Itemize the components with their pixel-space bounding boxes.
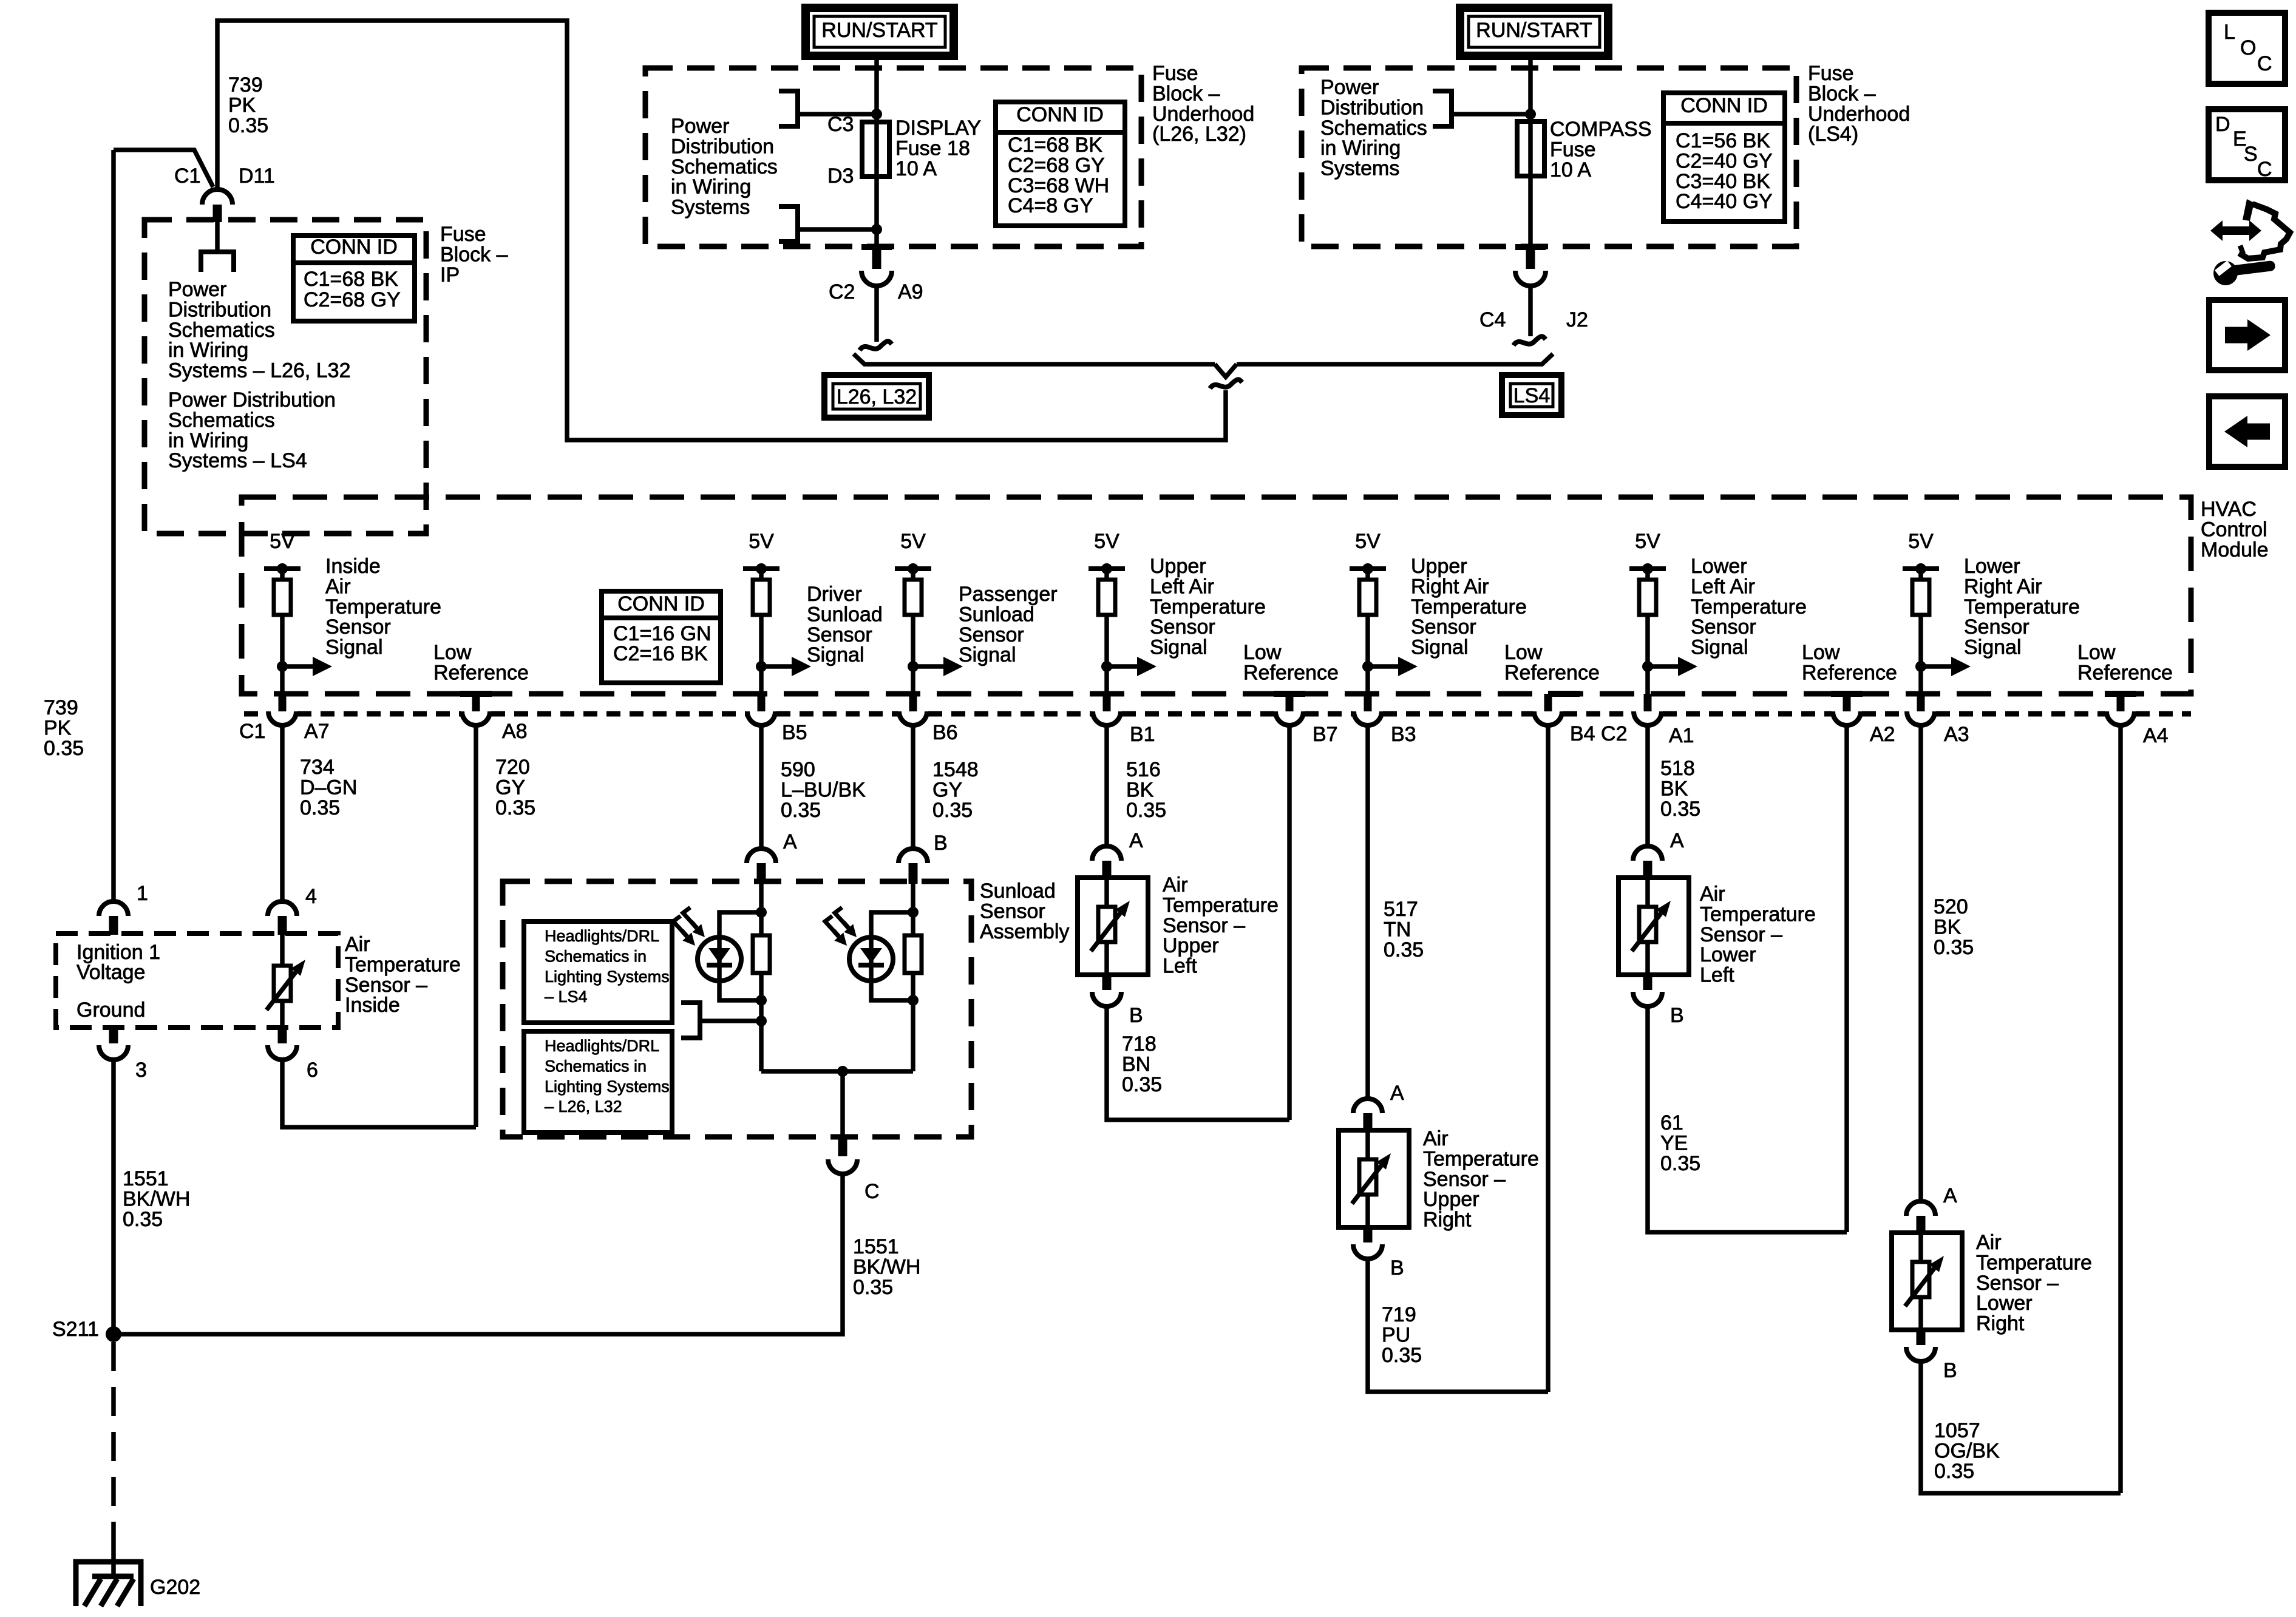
svg-text:B: B: [1943, 1359, 1957, 1382]
svg-text:Upper: Upper: [1411, 555, 1467, 578]
svg-text:Left: Left: [1163, 955, 1197, 978]
svg-text:518: 518: [1660, 757, 1695, 780]
photodiode LED passenger sunload: [849, 937, 893, 981]
HVAC pin B4 C2 low reference: [1548, 691, 1580, 697]
svg-text:A: A: [1129, 829, 1143, 852]
wire low reference loop lower right: [1921, 1363, 2121, 1493]
wire LED branch bottom driver sunload: [719, 981, 761, 1000]
svg-text:A7: A7: [304, 720, 330, 743]
wire break squiggle below A9: [860, 341, 892, 350]
HVAC pin B6 signal: [909, 694, 917, 711]
svg-text:– LS4: – LS4: [545, 988, 588, 1006]
svg-text:Schematics: Schematics: [168, 408, 275, 432]
svg-text:B: B: [1390, 1256, 1404, 1280]
connector B sunload arc: [898, 849, 928, 863]
svg-text:1: 1: [137, 882, 148, 905]
svg-text:Sensor: Sensor: [325, 615, 391, 639]
junction dot D3: [871, 224, 882, 235]
svg-text:Right: Right: [1423, 1209, 1472, 1232]
svg-text:C2: C2: [829, 280, 855, 303]
svg-text:Systems: Systems: [671, 196, 750, 219]
wire main branch passenger sunload: [911, 884, 915, 1071]
svg-text:Underhood: Underhood: [1152, 103, 1254, 126]
svg-text:Sunload: Sunload: [807, 603, 883, 626]
svg-text:0.35: 0.35: [1934, 1460, 1974, 1483]
air temperature sensor box lower right: [1892, 1233, 1962, 1330]
svg-text:Sensor –: Sensor –: [1163, 914, 1245, 937]
svg-text:Power: Power: [1320, 76, 1379, 99]
svg-text:0.35: 0.35: [1382, 1344, 1422, 1367]
svg-text:Power: Power: [168, 278, 226, 301]
CONN ID box IP: [293, 236, 415, 321]
photodiode LED driver sunload: [698, 937, 741, 981]
svg-text:C2=16 BK: C2=16 BK: [613, 642, 708, 665]
wire 1551 BK/WH from ignition ground: [111, 1059, 116, 1334]
svg-text:6: 6: [307, 1059, 318, 1082]
svg-text:GY: GY: [495, 776, 525, 799]
svg-text:A9: A9: [898, 280, 923, 303]
svg-text:0.35: 0.35: [300, 796, 340, 819]
svg-text:B3: B3: [1391, 723, 1416, 746]
svg-text:D11: D11: [239, 164, 275, 188]
svg-text:Air: Air: [1163, 873, 1188, 897]
svg-text:0.35: 0.35: [1660, 1152, 1700, 1175]
svg-text:CONN ID: CONN ID: [617, 592, 705, 615]
svg-text:Reference: Reference: [1802, 661, 1897, 684]
svg-text:Air: Air: [325, 575, 351, 598]
svg-text:DISPLAY: DISPLAY: [895, 117, 981, 140]
connector B upper right: [1364, 1227, 1373, 1242]
svg-text:Left Air: Left Air: [1150, 575, 1214, 598]
svg-text:Signal: Signal: [1691, 636, 1748, 659]
svg-text:BK/WH: BK/WH: [123, 1187, 190, 1210]
svg-text:Inside: Inside: [345, 994, 400, 1017]
svg-text:BK/WH: BK/WH: [853, 1255, 920, 1278]
svg-text:739: 739: [228, 73, 263, 97]
svg-text:5V: 5V: [749, 530, 774, 553]
svg-text:0.35: 0.35: [1660, 798, 1700, 821]
svg-text:Right Air: Right Air: [1411, 575, 1489, 598]
svg-text:0.35: 0.35: [123, 1208, 163, 1231]
svg-text:C1: C1: [239, 720, 265, 743]
headlights DRL schematics LS4 box: [524, 921, 672, 1023]
svg-text:739: 739: [44, 696, 78, 719]
wire 590 L-BU/BK from B5: [759, 725, 764, 850]
svg-text:4: 4: [305, 885, 317, 908]
svg-text:C1=56 BK: C1=56 BK: [1676, 129, 1770, 152]
svg-text:A8: A8: [502, 720, 528, 743]
svg-text:0.35: 0.35: [932, 799, 973, 822]
svg-text:Fuse: Fuse: [1550, 138, 1596, 161]
svg-text:10 A: 10 A: [895, 157, 937, 180]
svg-text:0.35: 0.35: [495, 796, 535, 819]
HVAC pin A1 signal: [1644, 694, 1652, 711]
svg-text:– L26, L32: – L26, L32: [545, 1097, 622, 1116]
svg-text:L26, L32: L26, L32: [837, 385, 917, 408]
svg-text:B1: B1: [1130, 723, 1155, 746]
wire low reference loop upper right: [1368, 1259, 1548, 1392]
svg-text:Signal: Signal: [1150, 636, 1207, 659]
svg-text:520: 520: [1934, 895, 1968, 918]
svg-text:Temperature: Temperature: [1700, 903, 1816, 926]
HVAC pin A7 signal: [279, 694, 287, 711]
svg-text:A2: A2: [1870, 723, 1895, 746]
bracket stub D3: [779, 206, 798, 242]
HVAC control module dashed box: [242, 497, 2191, 694]
svg-text:5V: 5V: [1355, 530, 1381, 553]
svg-text:720: 720: [495, 756, 530, 779]
svg-text:Fuse: Fuse: [440, 223, 486, 246]
connector C2 A9 pin: [861, 244, 892, 250]
svg-text:PK: PK: [228, 93, 256, 117]
wire below A9: [874, 284, 879, 342]
svg-text:Signal: Signal: [325, 636, 383, 659]
wire LED branch top passenger sunload: [871, 912, 913, 937]
svg-text:Sensor: Sensor: [1411, 615, 1476, 639]
option wire L26/L32 with brace notch: [854, 354, 1215, 364]
junction dot headlights bracket: [756, 1015, 767, 1026]
svg-text:Fuse: Fuse: [1808, 62, 1854, 85]
connector C4 J2 cup: [1515, 271, 1546, 286]
svg-text:Assembly: Assembly: [980, 920, 1069, 943]
wire 516 BK from B1: [1104, 725, 1109, 846]
wire low reference from B7: [1287, 725, 1292, 1120]
svg-text:Headlights/DRL: Headlights/DRL: [545, 927, 659, 945]
svg-text:A: A: [1943, 1184, 1957, 1207]
wire from headlights bracket: [700, 1019, 761, 1023]
wire below J2: [1528, 284, 1533, 336]
svg-text:A: A: [783, 830, 797, 853]
signal arrow passenger sunload sensor: [908, 661, 919, 672]
svg-text:BK: BK: [1934, 915, 1961, 938]
svg-text:A1: A1: [1669, 724, 1694, 747]
light arrows passenger sunload: [835, 907, 848, 927]
svg-text:Schematics: Schematics: [1320, 117, 1427, 140]
connector A upper left: [1092, 846, 1121, 861]
bracket stub headlights: [681, 1003, 700, 1038]
svg-text:Signal: Signal: [807, 643, 864, 666]
svg-text:Block –: Block –: [1152, 82, 1220, 105]
HVAC pin A2 low reference: [1831, 691, 1863, 697]
svg-text:C2=68 GY: C2=68 GY: [1008, 154, 1105, 177]
connector 3 below ignition box: [109, 1028, 118, 1043]
fuse block IP dashed box: [144, 220, 426, 534]
junction dot bottom passenger sunload: [908, 995, 919, 1006]
icon box arrow left: [2209, 396, 2285, 467]
icon wrench with arrows: [2210, 220, 2261, 241]
signal arrow inside air temperature sensor: [277, 661, 288, 672]
svg-text:Reference: Reference: [433, 661, 529, 684]
svg-text:Power: Power: [671, 115, 729, 138]
connector C1 D11 arc: [202, 189, 233, 205]
icon box LOC: [2209, 13, 2285, 84]
svg-text:C: C: [2257, 158, 2272, 181]
fuse COMPASS Fuse 10A: [1517, 121, 1544, 176]
load resistor driver sunload: [753, 935, 770, 973]
svg-text:in Wiring: in Wiring: [671, 175, 751, 198]
wire 520 BK from A3: [1918, 725, 1923, 1201]
svg-text:CONN ID: CONN ID: [1680, 94, 1768, 117]
svg-text:C4=8 GY: C4=8 GY: [1008, 194, 1093, 217]
svg-text:0.35: 0.35: [1934, 936, 1974, 959]
svg-text:PU: PU: [1382, 1323, 1410, 1346]
pullup resistor lower left air temperature sensor: [1645, 569, 1650, 694]
svg-text:Low: Low: [2077, 641, 2116, 664]
pullup resistor driver sunload sensor: [759, 569, 764, 694]
wire RUN/START left drop through fuse: [874, 56, 879, 246]
svg-text:1057: 1057: [1934, 1419, 1980, 1442]
svg-text:3: 3: [135, 1059, 147, 1082]
fuse block IP internal stub below D11: [215, 222, 220, 249]
svg-text:L–BU/BK: L–BU/BK: [781, 778, 866, 801]
svg-text:Systems – LS4: Systems – LS4: [168, 449, 307, 472]
ignition and inside sensor dashed box: [56, 934, 338, 1028]
junction dot sunload common: [837, 1066, 848, 1077]
svg-text:719: 719: [1382, 1303, 1416, 1326]
svg-text:Systems – L26, L32: Systems – L26, L32: [168, 359, 351, 382]
connector A lower right: [1906, 1201, 1935, 1216]
svg-text:Sensor: Sensor: [959, 623, 1024, 646]
wire branch C3: [800, 112, 877, 117]
signal arrow lower right air temperature sensor: [1915, 661, 1926, 672]
svg-text:D: D: [2215, 113, 2230, 136]
svg-text:Driver: Driver: [807, 583, 862, 606]
svg-text:B: B: [1129, 1004, 1143, 1027]
junction dot C3: [871, 109, 882, 120]
svg-text:Temperature: Temperature: [1163, 893, 1279, 917]
svg-text:1548: 1548: [932, 758, 979, 781]
svg-text:Passenger: Passenger: [959, 583, 1058, 606]
svg-text:Sensor –: Sensor –: [1700, 923, 1782, 946]
svg-text:Lower: Lower: [1700, 943, 1756, 966]
svg-text:Control: Control: [2201, 518, 2267, 541]
svg-text:A3: A3: [1944, 723, 1969, 746]
pullup resistor passenger sunload sensor: [911, 569, 915, 694]
svg-text:Distribution: Distribution: [671, 135, 774, 158]
svg-text:Block –: Block –: [440, 243, 508, 266]
wire 1057 OG/BK low reference from A4: [2118, 725, 2123, 1493]
svg-text:C: C: [864, 1180, 880, 1203]
wire 720 GY from A8 low reference: [474, 725, 478, 1127]
HVAC pin A3 signal: [1917, 694, 1925, 711]
svg-text:C3: C3: [827, 113, 854, 136]
svg-text:B7: B7: [1313, 723, 1338, 746]
svg-text:COMPASS: COMPASS: [1550, 118, 1652, 141]
load resistor passenger sunload: [905, 935, 922, 973]
svg-text:Schematics: Schematics: [671, 155, 778, 178]
option tag box LS4: [1502, 375, 1561, 415]
wire break squiggle on brace continuation: [1210, 379, 1242, 388]
wire top-left loop from D11 to option brace: [217, 21, 1226, 440]
svg-text:S211: S211: [52, 1318, 99, 1341]
wire left vertical 739 PK / ignition feed: [111, 150, 116, 902]
svg-text:(L26, L32): (L26, L32): [1152, 123, 1246, 146]
svg-text:Low: Low: [1504, 641, 1543, 664]
svg-text:Air: Air: [1700, 883, 1725, 906]
svg-text:RUN/START: RUN/START: [821, 19, 937, 42]
connector C2 A9 cup: [861, 271, 892, 286]
wire RUN/START right drop through fuse: [1528, 56, 1533, 246]
connector A lower left: [1633, 846, 1662, 861]
svg-text:Air: Air: [1976, 1231, 2002, 1254]
svg-text:Sunload: Sunload: [959, 603, 1034, 626]
svg-text:61: 61: [1660, 1111, 1683, 1134]
svg-text:10 A: 10 A: [1550, 158, 1591, 181]
connector A sunload arc: [747, 849, 776, 863]
svg-text:O: O: [2240, 36, 2256, 59]
svg-text:PK: PK: [44, 716, 72, 739]
svg-text:5V: 5V: [1094, 530, 1119, 553]
connector C4 J2 pin: [1515, 244, 1546, 250]
svg-text:Reference: Reference: [1504, 661, 1600, 684]
wire branch right fuse: [1454, 112, 1530, 117]
svg-text:1551: 1551: [853, 1235, 899, 1258]
svg-text:C: C: [2257, 52, 2272, 75]
svg-text:0.35: 0.35: [1384, 938, 1424, 961]
svg-text:Sensor –: Sensor –: [1423, 1168, 1506, 1191]
svg-text:Lower: Lower: [1964, 555, 2020, 578]
svg-text:B6: B6: [932, 721, 958, 744]
CONN ID box HVAC: [602, 591, 721, 683]
svg-text:D3: D3: [827, 164, 854, 188]
signal arrow upper right air temperature sensor: [1362, 661, 1373, 672]
svg-text:C3=68 WH: C3=68 WH: [1008, 174, 1109, 197]
svg-text:Sensor: Sensor: [1691, 615, 1756, 639]
svg-text:5V: 5V: [1908, 530, 1934, 553]
svg-text:Fuse: Fuse: [1152, 62, 1198, 85]
air temperature sensor box upper left: [1078, 878, 1148, 975]
svg-text:Temperature: Temperature: [1691, 595, 1807, 619]
svg-text:TN: TN: [1384, 918, 1411, 941]
svg-text:RUN/START: RUN/START: [1476, 19, 1592, 42]
wire 1548 GY from B6: [911, 725, 915, 850]
wire 61 YE low reference from A2: [1844, 725, 1849, 1232]
svg-text:Underhood: Underhood: [1808, 103, 1910, 126]
wire 517 TN from B3: [1365, 725, 1370, 1099]
svg-text:Inside: Inside: [325, 555, 381, 578]
light arrows driver sunload: [683, 907, 696, 927]
RUN/START tag right: [1460, 8, 1608, 56]
wire low reference from B4 C2: [1546, 725, 1550, 1392]
svg-text:Lighting Systems: Lighting Systems: [545, 1077, 670, 1096]
wire branch D3: [800, 227, 877, 232]
svg-text:J2: J2: [1566, 308, 1588, 331]
svg-text:0.35: 0.35: [1122, 1073, 1162, 1096]
svg-text:718: 718: [1122, 1032, 1156, 1056]
svg-text:Reference: Reference: [2077, 661, 2173, 684]
HVAC pin B7 low reference: [1274, 691, 1305, 697]
fuse DISPLAY Fuse 18 10A: [862, 122, 889, 177]
svg-text:Schematics: Schematics: [168, 319, 275, 342]
svg-text:Sensor: Sensor: [980, 900, 1045, 923]
svg-text:Temperature: Temperature: [1976, 1251, 2092, 1274]
sunload bottom wire: [761, 1069, 913, 1074]
bracket stub C3: [779, 91, 798, 126]
svg-text:Temperature: Temperature: [1411, 595, 1527, 619]
pullup resistor lower right air temperature sensor: [1918, 569, 1923, 694]
wire break squiggle below J2: [1513, 336, 1546, 345]
svg-text:Temperature: Temperature: [325, 595, 441, 619]
svg-text:in Wiring: in Wiring: [168, 339, 248, 362]
signal arrow driver sunload sensor: [756, 661, 767, 672]
svg-text:C4: C4: [1479, 308, 1506, 331]
svg-text:B4 C2: B4 C2: [1570, 722, 1628, 745]
svg-text:C1=68 BK: C1=68 BK: [1008, 134, 1102, 157]
svg-text:IP: IP: [440, 263, 460, 286]
svg-text:590: 590: [781, 758, 815, 781]
svg-text:Left Air: Left Air: [1691, 575, 1755, 598]
svg-text:Upper: Upper: [1163, 934, 1219, 957]
headlights DRL schematics L26 L32 box: [524, 1031, 672, 1133]
connector C1 D11 pin: [213, 205, 222, 222]
wire LED branch top driver sunload: [719, 912, 761, 937]
connector B upper left: [1102, 975, 1112, 990]
air temperature sensor box upper right: [1339, 1130, 1409, 1227]
svg-text:0.35: 0.35: [44, 737, 84, 760]
svg-text:Sunload: Sunload: [980, 880, 1056, 903]
svg-text:Signal: Signal: [959, 643, 1016, 666]
svg-text:Fuse 18: Fuse 18: [895, 137, 970, 160]
svg-text:5V: 5V: [900, 530, 926, 553]
svg-text:Module: Module: [2201, 538, 2269, 561]
svg-text:Sensor: Sensor: [1964, 615, 2029, 639]
wire LED branch bottom passenger sunload: [871, 981, 913, 1000]
svg-text:C2=40 GY: C2=40 GY: [1676, 149, 1773, 172]
svg-text:0.35: 0.35: [781, 799, 821, 822]
sunload sensor assembly dashed box: [503, 881, 971, 1137]
svg-text:L: L: [2224, 21, 2235, 44]
signal arrow lower left air temperature sensor: [1642, 661, 1653, 672]
bracket stub right fuse: [1433, 91, 1452, 126]
svg-text:Sensor: Sensor: [1150, 615, 1215, 639]
svg-text:Right: Right: [1976, 1312, 2025, 1335]
wire from 6 to A8 low reference: [282, 1059, 476, 1127]
HVAC pin B1 signal: [1103, 694, 1111, 711]
CONN ID box right underhood: [1663, 93, 1785, 222]
svg-text:Low: Low: [1802, 641, 1840, 664]
svg-text:YE: YE: [1660, 1131, 1688, 1154]
svg-text:B5: B5: [782, 721, 807, 744]
svg-text:Temperature: Temperature: [1150, 595, 1266, 619]
svg-text:B: B: [934, 832, 948, 855]
wire low reference loop upper left: [1107, 1008, 1289, 1120]
svg-text:Signal: Signal: [1411, 636, 1469, 659]
svg-text:Upper: Upper: [1423, 1188, 1479, 1211]
svg-text:Sensor –: Sensor –: [1976, 1272, 2059, 1295]
svg-text:Left: Left: [1700, 964, 1734, 987]
svg-text:Right Air: Right Air: [1964, 575, 2042, 598]
svg-text:0.35: 0.35: [228, 114, 268, 137]
svg-text:517: 517: [1384, 898, 1418, 921]
svg-text:Sensor –: Sensor –: [345, 974, 427, 997]
svg-text:S: S: [2244, 143, 2258, 166]
connector 4 arc inside sensor: [268, 901, 297, 916]
svg-text:Voltage: Voltage: [76, 961, 145, 984]
connector C sunload: [838, 1137, 847, 1156]
svg-text:Headlights/DRL: Headlights/DRL: [545, 1037, 659, 1055]
svg-text:OG/BK: OG/BK: [1934, 1439, 2000, 1462]
HVAC connector dashed line: [244, 711, 267, 717]
icon box DESC: [2209, 109, 2285, 180]
svg-text:Signal: Signal: [1964, 636, 2022, 659]
HVAC pin A8 low reference: [460, 691, 492, 697]
ground symbol G202: [76, 1562, 141, 1606]
fuse block underhood LS4 dashed box: [1302, 68, 1796, 246]
svg-text:A: A: [1390, 1082, 1404, 1105]
svg-text:in Wiring: in Wiring: [168, 429, 248, 452]
wire 1551 BK/WH from sunload C: [114, 1173, 843, 1334]
junction dot bottom driver sunload: [756, 995, 767, 1006]
